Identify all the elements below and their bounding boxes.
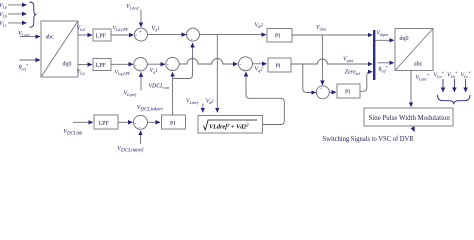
bus bar collecting dq0 signals xyxy=(373,30,375,80)
wire VLd to LPF1 xyxy=(78,34,92,36)
node VLabc-star label xyxy=(416,73,430,81)
node VDCLcon label xyxy=(149,84,170,90)
wire Vd2 from S2 east to PI1 with junction at x217 xyxy=(200,34,267,36)
wire VLqref up into S3 xyxy=(140,72,142,90)
svg-text:θref*: θref* xyxy=(379,65,388,73)
svg-text:abc: abc xyxy=(414,62,423,68)
summing junction S1 xyxy=(135,28,148,41)
svg-text:PI: PI xyxy=(345,89,350,95)
svg-text:VLc*: VLc* xyxy=(461,71,472,79)
wire VDCLinkref up into S7 xyxy=(140,131,142,144)
svg-text:VLqref: VLqref xyxy=(124,91,137,97)
wire VLc-star down arrow xyxy=(465,79,467,92)
svg-text:Vd1: Vd1 xyxy=(152,26,161,32)
wire Vdtot from PI1 to bus bar xyxy=(292,34,372,36)
wire VLc arrow xyxy=(8,22,27,24)
wire Vqtot from PI2 to bus bar with hop xyxy=(291,59,372,64)
wire VLb arrow xyxy=(8,13,27,15)
node Vd1 label xyxy=(152,26,161,32)
wire VLq to LPF2 xyxy=(78,64,92,66)
svg-text:VLd,LPF: VLd,LPF xyxy=(113,26,129,33)
node VLdLPF label xyxy=(113,26,129,33)
svg-text:Vd2: Vd2 xyxy=(255,22,264,28)
wire theta-ref-star into dq0-abc block xyxy=(378,62,394,64)
node VLc-star label xyxy=(461,71,472,79)
node VLb input label xyxy=(0,12,7,18)
node VLa-star label xyxy=(434,71,445,79)
wire VLa-star down arrow xyxy=(442,79,444,92)
svg-text:-: - xyxy=(187,32,189,38)
wire VLabc-star from U2 down to SPWM xyxy=(410,71,412,107)
svg-text:VDCLcon: VDCLcon xyxy=(149,84,170,90)
block U2 dq0 to abc transform xyxy=(395,29,433,71)
svg-text:-: - xyxy=(320,86,322,92)
node Vd2 label above sqrt block xyxy=(206,99,214,105)
wire Vq2 from S5 to PI2 xyxy=(253,63,267,65)
node VLd label xyxy=(77,26,86,32)
wire S7 to PI5 xyxy=(148,121,160,123)
wire S6 to PI3 xyxy=(329,91,336,93)
wire LPF1 to sum S1 xyxy=(111,34,134,36)
wire row2 from S4 east to sum S5 with hops xyxy=(179,59,237,65)
node VLc input label xyxy=(0,21,7,27)
wire VLa arrow xyxy=(8,4,27,6)
svg-text:Vdqtot: Vdqtot xyxy=(377,31,390,37)
svg-text:VLabc*: VLabc* xyxy=(416,73,430,81)
node VLq label xyxy=(77,69,85,75)
svg-text:Vq2: Vq2 xyxy=(255,67,264,73)
wire VLabc into abc-dq0 block xyxy=(20,36,40,38)
svg-text:VLa: VLa xyxy=(0,3,7,9)
svg-text:Zerosel: Zerosel xyxy=(345,70,362,76)
svg-text:VLd: VLd xyxy=(77,26,86,32)
svg-text:VDCLink: VDCLink xyxy=(63,129,83,136)
svg-text:PI: PI xyxy=(275,34,280,40)
node VDCLinkerr label xyxy=(137,105,164,112)
svg-text:LPF: LPF xyxy=(96,63,107,69)
svg-text:VLq: VLq xyxy=(77,69,85,75)
node Vd2 label before PI1 xyxy=(255,22,264,28)
node VLabc label xyxy=(18,30,31,38)
wire Vqtot branch down and right into S6 left xyxy=(303,64,316,93)
node Vdqtot label xyxy=(377,31,390,37)
block PI5 DC link controller xyxy=(162,115,186,129)
wire LPF2 to sum S3 xyxy=(111,63,133,65)
wire VDCLcon branch to sum S2 bottom with rounded corner xyxy=(173,43,193,79)
wire Vq1 from S3 to sum S4 xyxy=(147,63,165,65)
summing junction S3 xyxy=(134,57,147,72)
svg-text:-: - xyxy=(244,67,246,73)
wire Vd2 vertical down to sqrt block xyxy=(216,35,218,113)
node switching signals caption xyxy=(323,135,414,143)
svg-text:VDCLinkerr: VDCLinkerr xyxy=(137,105,164,112)
svg-text:Sine Pulse Width Modulation: Sine Pulse Width Modulation xyxy=(369,115,451,122)
brace gathering VLa VLb VLc star into SPWM xyxy=(438,95,471,104)
summing junction S2 xyxy=(187,28,200,43)
wire VDCLink into LPF3 xyxy=(73,121,93,123)
summing junction S7 xyxy=(134,115,148,131)
svg-text:LPF: LPF xyxy=(99,121,110,127)
summing junction S6 zero sequence xyxy=(316,86,329,99)
svg-text:VLdref: VLdref xyxy=(126,4,139,10)
svg-text:Switching Signals to VSC of DV: Switching Signals to VSC of DVR xyxy=(323,135,414,143)
wire VLb-star down arrow xyxy=(453,79,455,92)
summing junction S4 xyxy=(166,57,179,72)
node VLdref label above sqrt block xyxy=(186,99,199,105)
svg-text:-: - xyxy=(171,67,173,73)
block LPF2 xyxy=(93,59,111,71)
node VLa input label xyxy=(0,3,7,9)
svg-text:Vq1: Vq1 xyxy=(150,68,159,74)
node Zerosel label xyxy=(345,70,362,76)
brace grouping VLa VLb VLc xyxy=(30,2,37,27)
wire LPF3 to sum S7 xyxy=(118,121,133,123)
node Vqtot label xyxy=(343,57,354,63)
block U1 abc to dq0 transform xyxy=(41,21,78,77)
svg-text:dq0: dq0 xyxy=(400,36,409,42)
wire VLdref into sum S1 xyxy=(140,10,142,28)
svg-text:Vdtot: Vdtot xyxy=(316,25,327,31)
svg-text:PI: PI xyxy=(170,121,175,127)
svg-text:VLb: VLb xyxy=(0,12,7,18)
node Vq1 label xyxy=(150,68,159,74)
svg-text:-: - xyxy=(316,90,318,96)
svg-text:Vqtot: Vqtot xyxy=(343,57,354,63)
svg-text:LPF: LPF xyxy=(96,33,107,39)
svg-text:-: - xyxy=(139,67,141,73)
summing junction S5 xyxy=(239,57,253,73)
block PI1 xyxy=(267,29,292,43)
block LPF1 xyxy=(93,29,111,41)
wire Zerosel from PI3 up to bus bar xyxy=(360,72,372,92)
svg-text:VLb*: VLb* xyxy=(447,71,458,79)
svg-text:θref*: θref* xyxy=(19,63,29,71)
svg-text:-: - xyxy=(191,37,193,43)
node Vdtot label xyxy=(316,25,327,31)
svg-text:VLdref2 + Vd22: VLdref2 + Vd22 xyxy=(209,123,249,131)
wire Vdqtot from bus into dq0-abc block xyxy=(376,39,394,41)
svg-text:abc: abc xyxy=(46,35,55,41)
wire SPWM output down xyxy=(412,126,415,132)
node VLb-star label xyxy=(447,71,458,79)
block magnitude sqrt(VLdref^2+Vd2^2) xyxy=(198,116,263,134)
wire VLdref short arrow into sqrt block xyxy=(202,104,204,113)
node theta-ref-star label xyxy=(379,65,388,73)
node Vq2 label xyxy=(255,67,264,73)
wire theta-ref into abc-dq0 block xyxy=(19,59,40,61)
wire VDCLcon from PI5 top up into S4 xyxy=(172,72,174,115)
node theta-ref label xyxy=(19,63,29,71)
svg-text:-: - xyxy=(135,33,137,39)
node VLqLPF label xyxy=(115,70,131,77)
svg-text:+: + xyxy=(139,29,142,35)
block PI2 xyxy=(268,58,291,72)
svg-text:PI: PI xyxy=(276,63,281,69)
node VDCLinkref label xyxy=(117,146,144,153)
node VLqref label xyxy=(124,91,137,97)
svg-text:-: - xyxy=(139,125,141,131)
node VDCLink label xyxy=(63,129,83,136)
node VLdref label xyxy=(126,4,139,10)
svg-text:-: - xyxy=(135,62,137,68)
svg-text:-: - xyxy=(135,120,137,126)
block LPF3 xyxy=(94,115,118,129)
svg-text:Vd2: Vd2 xyxy=(206,99,214,105)
block PI3 zero-sequence controller xyxy=(337,84,360,98)
wire Vd1 from S1 to sum S2 xyxy=(148,34,187,36)
svg-text:dq0: dq0 xyxy=(63,62,72,68)
block SPWM xyxy=(364,108,453,126)
svg-text:-: - xyxy=(240,62,242,68)
svg-text:-: - xyxy=(167,62,169,68)
svg-text:VDCLinkref: VDCLinkref xyxy=(117,146,144,153)
wire Vdtot branch down to zero sum S6 xyxy=(321,35,323,85)
svg-text:VLdref: VLdref xyxy=(186,99,199,105)
wire sqrt-block output up into S5 bottom xyxy=(246,72,284,125)
svg-text:VLa*: VLa* xyxy=(434,71,445,79)
svg-text:VLq,LPF: VLq,LPF xyxy=(115,70,131,77)
svg-text:VLc: VLc xyxy=(0,21,7,27)
